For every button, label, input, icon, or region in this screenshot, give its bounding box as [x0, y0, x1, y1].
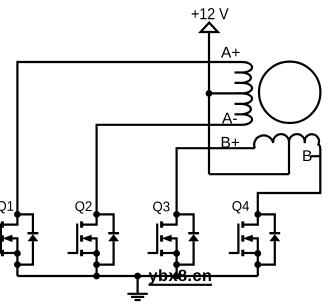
motor rotor circle [259, 62, 320, 123]
wire ground rail [17, 275, 257, 277]
power +12V arrow symbol [201, 23, 218, 32]
node +12V supply label [192, 8, 229, 19]
wire coil B center tap vertical [288, 143, 290, 174]
label Q2 [75, 201, 91, 213]
node rail junction at Q3 source [173, 273, 180, 280]
label Q3 [153, 202, 169, 214]
wire B- lead from coil to Q4 drain [258, 149, 321, 214]
wire +12V horizontal to coil B center tap [209, 173, 289, 175]
inductor coil B (winding B) [254, 134, 320, 149]
wire A- lead from coil to Q2 drain [97, 125, 242, 215]
label A- [222, 113, 237, 124]
node rail junction at ground [134, 273, 141, 280]
label B+ [222, 137, 239, 148]
transistor Q3 [148, 211, 199, 276]
label A+ [221, 47, 240, 58]
label Q1 [0, 201, 13, 213]
wire A+ lead from coil to Q1 drain [17, 62, 231, 214]
ground [127, 276, 147, 300]
label B- [303, 150, 311, 161]
node A coil center tap junction [206, 90, 213, 97]
label Q4 [232, 201, 249, 213]
wire A coil center tap [209, 92, 242, 94]
transistor Q4 [229, 211, 280, 276]
inductor coil A (winding A) [230, 62, 252, 125]
node rail junction at Q2 source [93, 273, 100, 280]
transistor Q1 [1, 211, 38, 276]
wire B+ lead from coil to Q3 drain [177, 148, 255, 214]
transistor Q2 [68, 211, 119, 276]
wire +12V vertical rail [208, 32, 210, 174]
watermark ybx8.cn [149, 269, 213, 285]
